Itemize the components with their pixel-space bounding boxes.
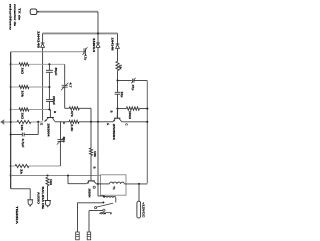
svg-text:47k: 47k [70,111,74,118]
svg-text:220pF: 220pF [52,96,56,105]
svg-text:+12VCC: +12VCC [142,202,146,219]
svg-text:TX de: TX de [18,8,22,20]
svg-text:SALIDA DE: SALIDA DE [41,187,45,210]
svg-text:1N4148: 1N4148 [111,38,115,51]
svg-text:1N4148: 1N4148 [37,31,41,49]
svg-text:1N914: 1N914 [92,38,96,53]
svg-text:40p: 40p [62,137,66,143]
svg-text:1kΩ: 1kΩ [49,179,53,186]
svg-text:E: E [106,123,110,125]
svg-text:AUDIO: AUDIO [36,192,40,205]
svg-text:10k: 10k [21,91,25,98]
svg-text:1k: 1k [119,65,123,71]
svg-text:conector de: conector de [13,4,17,27]
svg-text:TIERRA: TIERRA [15,206,19,225]
svg-text:1kΩ: 1kΩ [21,68,25,75]
svg-text:30pF: 30pF [54,68,58,76]
svg-text:10p: 10p [120,92,124,98]
svg-text:10k: 10k [93,151,97,158]
svg-text:4.7μF: 4.7μF [21,139,25,148]
svg-text:4.7p: 4.7p [84,54,88,60]
svg-text:2N3904: 2N3904 [112,124,116,141]
svg-text:micrófono: micrófono [8,4,12,30]
svg-text:4.7: 4.7 [69,83,73,89]
svg-text:B: B [110,111,114,113]
svg-text:1kΩ: 1kΩ [21,113,25,120]
svg-text:2.2k: 2.2k [70,124,74,132]
svg-text:E: E [40,123,44,125]
svg-text:1k: 1k [20,169,24,175]
svg-text:10k: 10k [20,125,24,132]
svg-text:T1: T1 [112,186,116,190]
svg-text:2N3904: 2N3904 [88,189,92,198]
svg-text:47p: 47p [131,85,135,91]
svg-text:B: B [53,111,57,113]
svg-text:10kΩ: 10kΩ [128,111,132,120]
svg-text:2N3904: 2N3904 [46,124,50,137]
svg-text:B: B [93,167,97,169]
